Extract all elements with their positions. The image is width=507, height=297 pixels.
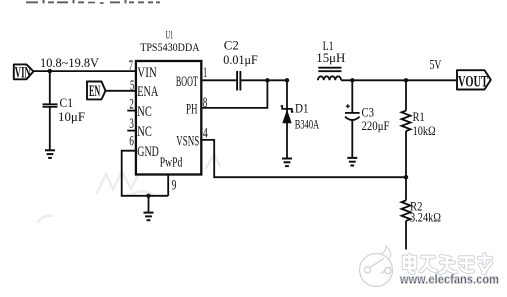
watermark text dianzifashaoyou	[404, 255, 491, 274]
wire to VOUT	[406, 79, 456, 81]
wire R2 bottom	[405, 221, 407, 250]
wire L1 to C3	[341, 79, 406, 81]
svg-text:ENA: ENA	[137, 84, 158, 100]
svg-text:5: 5	[130, 78, 134, 93]
resistor R1	[402, 110, 436, 138]
watermark logo	[360, 246, 393, 287]
svg-text:NC: NC	[137, 104, 152, 120]
svg-text:10.8~19.8V: 10.8~19.8V	[40, 55, 100, 70]
svg-text:BOOT: BOOT	[176, 74, 198, 90]
svg-text:C2: C2	[224, 38, 239, 52]
node GND junction	[146, 194, 150, 198]
svg-text:10μF: 10μF	[58, 110, 85, 124]
wire BOOT to C2	[201, 79, 236, 81]
port EN	[87, 82, 106, 100]
wire GND net from pin 6	[122, 151, 169, 196]
caption text clipped at top	[26, 0, 160, 4]
wire C3 bottom	[351, 120, 353, 158]
svg-text:EN: EN	[89, 83, 100, 100]
svg-text:C1: C1	[60, 96, 74, 110]
faint ghost watermark scribbles	[38, 154, 220, 222]
svg-text:VSNS: VSNS	[176, 133, 199, 149]
svg-text:10kΩ: 10kΩ	[413, 124, 436, 138]
svg-text:0.01μF: 0.01μF	[223, 53, 258, 67]
IC U1 TPS5430DDA	[136, 30, 201, 175]
wire pin 9	[167, 175, 169, 196]
svg-text:4: 4	[203, 125, 208, 141]
port VIN	[14, 64, 34, 81]
capacitor C2	[237, 71, 240, 91]
wire PH	[201, 80, 267, 108]
svg-text:D1: D1	[295, 102, 309, 116]
wire D1	[286, 80, 288, 158]
svg-text:NC: NC	[137, 124, 152, 140]
wire R1 top	[405, 80, 407, 110]
resistor R2	[402, 199, 442, 224]
svg-text:7: 7	[129, 58, 133, 74]
svg-text:5V: 5V	[430, 57, 442, 72]
node junction VIN/C1	[48, 69, 52, 73]
ground under D1	[282, 159, 292, 167]
svg-text:15μH: 15μH	[316, 51, 345, 65]
node PH junction	[265, 78, 269, 82]
svg-text:PwPd: PwPd	[160, 155, 183, 170]
port VOUT	[457, 70, 491, 90]
svg-text:VIN: VIN	[137, 65, 157, 81]
node D1 junction	[285, 78, 289, 82]
svg-text:VOUT: VOUT	[458, 73, 488, 90]
svg-text:220μF: 220μF	[362, 119, 390, 133]
node output junction	[404, 78, 408, 82]
svg-text:3.24kΩ: 3.24kΩ	[410, 211, 441, 225]
svg-text:GND: GND	[137, 144, 159, 160]
wire C1 top	[49, 71, 51, 104]
svg-text:3: 3	[129, 116, 134, 132]
wire R1 bottom	[405, 131, 407, 177]
wire C1 bottom	[49, 107, 51, 150]
svg-text:6: 6	[129, 134, 134, 150]
wire C3 top	[351, 80, 353, 112]
svg-text:R1: R1	[413, 110, 425, 124]
wire VIN rail	[34, 70, 136, 72]
svg-text:www.elecfans.com: www.elecfans.com	[399, 273, 499, 287]
node feedback junction	[404, 175, 408, 179]
node C3 junction	[350, 78, 354, 82]
svg-text:1: 1	[203, 65, 207, 81]
ground under U1	[144, 213, 154, 221]
svg-text:9: 9	[172, 178, 177, 194]
inductor L1	[316, 39, 345, 80]
wire C2 to switch node	[241, 79, 287, 81]
svg-text:TPS5430DDA: TPS5430DDA	[140, 40, 200, 54]
wire R2 top	[405, 177, 407, 200]
svg-text:C3: C3	[362, 105, 375, 119]
svg-text:B340A: B340A	[295, 118, 320, 132]
wire EN to pin 5	[106, 90, 136, 92]
ground under C3	[347, 158, 357, 166]
svg-text:VIN: VIN	[15, 64, 31, 81]
svg-text:PH: PH	[186, 101, 198, 117]
diode D1 schottky	[281, 102, 320, 132]
capacitor C3 polarized	[345, 104, 390, 133]
wire to ground	[148, 196, 150, 213]
capacitor C1	[43, 96, 86, 124]
wire VSNS net	[201, 140, 406, 177]
ground under C1	[45, 150, 55, 158]
